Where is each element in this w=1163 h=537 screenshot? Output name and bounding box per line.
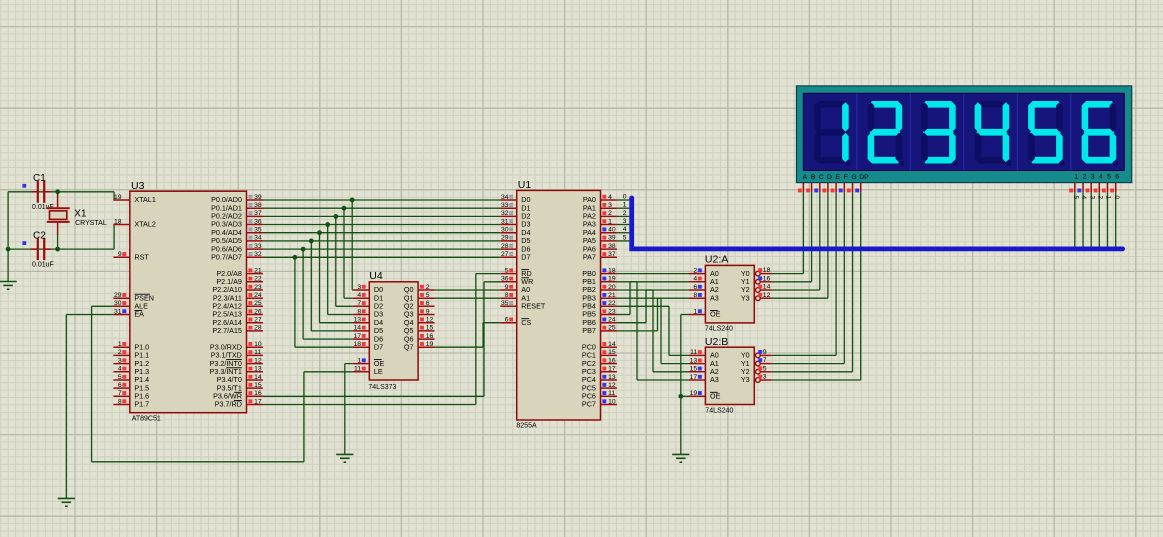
display digit 1 bbox=[814, 101, 851, 166]
U3 right pins (P0, P2, P3 ports) bbox=[210, 194, 263, 409]
node AD0 junction bbox=[350, 198, 355, 203]
wire AD5 net (U3 P0.5 to U4 D5 and U1 D5) bbox=[263, 241, 500, 331]
svg-text:4: 4 bbox=[1099, 174, 1103, 181]
svg-text:12: 12 bbox=[254, 357, 262, 364]
svg-text:U4: U4 bbox=[369, 270, 383, 282]
svg-text:3: 3 bbox=[623, 218, 627, 225]
wire A1 net (U4 Q1 to U1 A1) bbox=[435, 297, 501, 299]
node AD2 junction bbox=[333, 214, 338, 219]
svg-text:7: 7 bbox=[357, 300, 361, 307]
svg-text:25: 25 bbox=[608, 325, 616, 332]
svg-text:8: 8 bbox=[505, 292, 509, 299]
display segment labels ABCDEFG DP bbox=[803, 174, 870, 181]
svg-text:9: 9 bbox=[763, 349, 767, 356]
svg-text:1: 1 bbox=[623, 202, 627, 209]
svg-text:D7: D7 bbox=[521, 253, 530, 262]
display LED1 frame bbox=[797, 86, 1132, 183]
svg-text:10: 10 bbox=[608, 398, 616, 405]
svg-text:5: 5 bbox=[1072, 196, 1079, 200]
svg-text:14: 14 bbox=[254, 374, 262, 381]
IC U2:A 74LS240 body bbox=[705, 254, 754, 333]
svg-text:17: 17 bbox=[254, 398, 262, 405]
svg-text:5: 5 bbox=[505, 267, 509, 274]
svg-text:6: 6 bbox=[505, 317, 509, 324]
svg-text:13: 13 bbox=[254, 366, 262, 373]
svg-text:X1: X1 bbox=[74, 209, 87, 220]
svg-text:G: G bbox=[851, 174, 856, 181]
svg-text:74LS373: 74LS373 bbox=[368, 384, 396, 391]
wire PB1 net (U1 PB1 to 74LS240 input) bbox=[617, 282, 689, 380]
wire PA4 to bus with net label 4 bbox=[617, 226, 630, 233]
svg-text:PA7: PA7 bbox=[583, 253, 596, 262]
svg-text:4: 4 bbox=[1080, 196, 1087, 200]
svg-text:P0.7/AD7: P0.7/AD7 bbox=[211, 253, 242, 262]
svg-text:17: 17 bbox=[354, 333, 362, 340]
svg-text:C1: C1 bbox=[33, 173, 46, 184]
ground (EA) bbox=[58, 498, 75, 506]
svg-text:4: 4 bbox=[608, 194, 612, 201]
svg-text:A3: A3 bbox=[710, 293, 719, 302]
wire segment G net (74LS240 output to display) bbox=[772, 192, 853, 372]
svg-text:U2:A: U2:A bbox=[705, 254, 728, 266]
svg-text:5: 5 bbox=[426, 292, 430, 299]
svg-text:CRYSTAL: CRYSTAL bbox=[75, 220, 107, 227]
svg-text:CS: CS bbox=[521, 318, 531, 327]
svg-text:74LS240: 74LS240 bbox=[705, 408, 733, 415]
svg-text:1: 1 bbox=[357, 357, 361, 364]
wire segment C net (74LS240 output to display) bbox=[772, 192, 820, 290]
wire digit 6 net (display to bus) bbox=[1115, 192, 1117, 247]
svg-text:OE: OE bbox=[710, 392, 721, 401]
svg-text:36: 36 bbox=[254, 218, 262, 225]
wire digit 2 net (display to bus) bbox=[1082, 192, 1084, 247]
node AD5 junction bbox=[309, 239, 314, 244]
svg-text:9: 9 bbox=[118, 251, 122, 258]
node AD3 junction bbox=[325, 222, 330, 227]
svg-text:15: 15 bbox=[690, 366, 698, 373]
svg-text:DP: DP bbox=[859, 174, 869, 181]
wire PB0 net (U1 PB0 to 74LS240 input) bbox=[617, 273, 689, 275]
svg-text:RESET: RESET bbox=[521, 302, 546, 311]
svg-text:37: 37 bbox=[254, 210, 262, 217]
svg-text:2: 2 bbox=[1083, 174, 1087, 181]
svg-text:32: 32 bbox=[501, 210, 509, 217]
node AD6 junction bbox=[301, 247, 306, 252]
svg-text:12: 12 bbox=[426, 317, 434, 324]
svg-text:P1.7: P1.7 bbox=[134, 400, 149, 409]
svg-text:19: 19 bbox=[608, 276, 616, 283]
svg-text:U2:B: U2:B bbox=[705, 336, 728, 348]
wire digit 3 net (display to bus) bbox=[1090, 192, 1092, 247]
svg-text:28: 28 bbox=[254, 325, 262, 332]
svg-text:26: 26 bbox=[254, 308, 262, 315]
svg-text:38: 38 bbox=[254, 202, 262, 209]
wire A0 net (U4 Q0 to U1 A0) bbox=[435, 289, 501, 291]
node AD4 junction bbox=[317, 230, 322, 235]
wire AD7 net (U3 P0.7 to U4 D7 and U1 D7) bbox=[263, 257, 500, 347]
wire PB5 net (U1 PB5 to 74LS240 input) bbox=[617, 282, 689, 315]
wire segment A net (74LS240 output to display) bbox=[772, 192, 804, 274]
wire PB7 net (U1 PB7 to 74LS240 input) bbox=[617, 298, 689, 331]
svg-text:21: 21 bbox=[254, 267, 262, 274]
svg-text:XTAL2: XTAL2 bbox=[134, 220, 155, 229]
U3 left pins (XTAL1, XTAL2, RST, PSEN, ALE, EA, P1.0-P1.7) bbox=[113, 194, 155, 409]
svg-text:35: 35 bbox=[501, 300, 509, 307]
node C2 ground junction bbox=[6, 247, 11, 252]
wire segment B net (74LS240 output to display) bbox=[772, 192, 812, 282]
svg-text:E: E bbox=[835, 174, 840, 181]
svg-text:11: 11 bbox=[690, 349, 697, 356]
svg-text:6: 6 bbox=[426, 300, 430, 307]
svg-text:34: 34 bbox=[501, 194, 509, 201]
svg-text:16: 16 bbox=[254, 390, 262, 397]
svg-text:6: 6 bbox=[693, 284, 697, 291]
U2:A left pins (A0-A3, OE) bbox=[689, 267, 721, 318]
svg-text:15: 15 bbox=[426, 325, 434, 332]
svg-text:19: 19 bbox=[426, 341, 434, 348]
svg-text:33: 33 bbox=[254, 243, 262, 250]
svg-text:0: 0 bbox=[1113, 196, 1120, 200]
svg-text:34: 34 bbox=[254, 235, 262, 242]
svg-text:36: 36 bbox=[501, 276, 509, 283]
wire PA3 to bus with net label 3 bbox=[617, 218, 630, 225]
wire AD6 net (U3 P0.6 to U4 D6 and U1 D6) bbox=[263, 249, 500, 339]
svg-text:Y3: Y3 bbox=[741, 293, 750, 302]
svg-text:16: 16 bbox=[426, 333, 434, 340]
svg-text:U3: U3 bbox=[131, 180, 145, 192]
svg-text:OE: OE bbox=[710, 310, 721, 319]
svg-text:21: 21 bbox=[608, 292, 616, 299]
svg-text:31: 31 bbox=[114, 308, 122, 315]
svg-text:19: 19 bbox=[114, 194, 122, 201]
display digit 4 bbox=[975, 101, 1012, 166]
svg-text:B: B bbox=[811, 174, 816, 181]
svg-text:7: 7 bbox=[118, 390, 122, 397]
wire PA0 to bus with net label 0 bbox=[617, 193, 630, 200]
svg-text:2: 2 bbox=[623, 210, 627, 217]
svg-text:2: 2 bbox=[693, 267, 697, 274]
svg-text:4: 4 bbox=[693, 276, 697, 283]
wire AD4 net (U3 P0.4 to U4 D4 and U1 D4) bbox=[263, 233, 500, 323]
IC U2:B 74LS240 body bbox=[705, 336, 754, 415]
wire PB3 net (U1 PB3 to 74LS240 input) bbox=[617, 298, 689, 363]
svg-text:A: A bbox=[803, 174, 808, 181]
svg-text:30: 30 bbox=[114, 300, 122, 307]
svg-text:17: 17 bbox=[690, 374, 698, 381]
U1 left pins (D0-D7, RD, WR, A0, A1, RESET, CS) bbox=[500, 194, 546, 327]
svg-text:25: 25 bbox=[254, 300, 262, 307]
wire PB6 net (U1 PB6 to 74LS240 input) bbox=[617, 290, 689, 323]
svg-text:15: 15 bbox=[254, 382, 262, 389]
svg-text:37: 37 bbox=[608, 251, 616, 258]
svg-text:3: 3 bbox=[1088, 196, 1095, 200]
IC U1 8255A body bbox=[516, 179, 600, 429]
display digit 6 bbox=[1082, 101, 1119, 166]
svg-text:D7: D7 bbox=[374, 342, 383, 351]
svg-text:PC7: PC7 bbox=[582, 400, 596, 409]
svg-text:XTAL1: XTAL1 bbox=[134, 195, 155, 204]
svg-text:39: 39 bbox=[608, 235, 616, 242]
ground (crystal caps) bbox=[0, 282, 17, 290]
svg-text:A3: A3 bbox=[710, 375, 719, 384]
wire AD3 net (U3 P0.3 to U4 D3 and U1 D3) bbox=[263, 225, 500, 315]
svg-text:RST: RST bbox=[134, 253, 149, 262]
svg-text:74LS240: 74LS240 bbox=[705, 326, 733, 333]
U2:A right pins (Y0-Y3 with inverter bubbles) bbox=[741, 267, 772, 302]
svg-text:14: 14 bbox=[608, 341, 616, 348]
svg-text:3: 3 bbox=[118, 357, 122, 364]
node AD7 junction bbox=[293, 255, 298, 260]
wire segment DP net (74LS240 output to display) bbox=[772, 192, 861, 380]
svg-text:PB7: PB7 bbox=[582, 326, 596, 335]
svg-text:3: 3 bbox=[608, 202, 612, 209]
capacitor C2 bbox=[22, 230, 53, 268]
wire digit 4 net (display to bus) bbox=[1098, 192, 1100, 247]
wire AD1 net (U3 P0.1 to U4 D1 and U1 D1) bbox=[263, 208, 500, 298]
svg-text:0: 0 bbox=[623, 193, 627, 200]
svg-text:18: 18 bbox=[763, 267, 771, 274]
svg-text:2: 2 bbox=[608, 210, 612, 217]
svg-text:8255A: 8255A bbox=[516, 423, 537, 430]
svg-text:13: 13 bbox=[354, 317, 362, 324]
U2:B left pins (A0-A3, OE) bbox=[689, 349, 721, 400]
ground (U4 OE) bbox=[336, 454, 353, 462]
svg-text:24: 24 bbox=[254, 292, 262, 299]
svg-text:AT89C51: AT89C51 bbox=[132, 416, 161, 423]
display digit 5 bbox=[1028, 101, 1065, 166]
display digit labels 123456 bbox=[1074, 174, 1119, 181]
wire PB4 net (U1 PB4 to 74LS240 input) bbox=[617, 306, 689, 355]
svg-text:4: 4 bbox=[118, 366, 122, 373]
wire U4 OE to ground bbox=[345, 364, 353, 455]
svg-text:2: 2 bbox=[1097, 196, 1104, 200]
wire segment D net (74LS240 output to display) bbox=[772, 192, 828, 298]
svg-text:1: 1 bbox=[1105, 196, 1112, 200]
wire OE net (U2:A OE / U2:B OE to ground) bbox=[681, 315, 689, 455]
svg-text:24: 24 bbox=[608, 317, 616, 324]
svg-text:31: 31 bbox=[501, 218, 509, 225]
svg-text:14: 14 bbox=[763, 284, 771, 291]
svg-text:P3.7/RD: P3.7/RD bbox=[215, 400, 242, 409]
wire ALE net (U3 ALE to U4 LE) bbox=[92, 306, 353, 462]
svg-text:8: 8 bbox=[693, 292, 697, 299]
node AD1 junction bbox=[342, 206, 347, 211]
svg-text:15: 15 bbox=[608, 349, 616, 356]
svg-text:1: 1 bbox=[693, 308, 697, 315]
svg-text:5: 5 bbox=[118, 374, 122, 381]
svg-text:U1: U1 bbox=[518, 179, 532, 191]
svg-text:LE: LE bbox=[374, 367, 383, 376]
svg-text:30: 30 bbox=[501, 227, 509, 234]
svg-text:3: 3 bbox=[1091, 174, 1095, 181]
display digit pins (1-6) with rotated net labels 5-0 bbox=[1069, 183, 1120, 200]
svg-text:22: 22 bbox=[608, 300, 616, 307]
wire XTAL2 net (C2/X1 to U3 XTAL2) bbox=[58, 225, 115, 250]
svg-text:0.01uF: 0.01uF bbox=[32, 261, 54, 268]
svg-text:5: 5 bbox=[763, 365, 767, 372]
svg-text:12: 12 bbox=[608, 382, 616, 389]
svg-text:11: 11 bbox=[608, 390, 615, 397]
svg-text:17: 17 bbox=[608, 366, 616, 373]
svg-text:6: 6 bbox=[1115, 174, 1119, 181]
IC U3 AT89C51 body bbox=[130, 180, 247, 423]
node OE junction bbox=[678, 394, 683, 399]
U2:B right pins (Y0-Y3 with inverter bubbles) bbox=[741, 349, 772, 384]
wire XTAL1 net (C1/X1 to U3 XTAL1) bbox=[8, 192, 114, 200]
svg-text:13: 13 bbox=[608, 374, 616, 381]
node XTAL1 junction bbox=[55, 189, 60, 194]
wire EA net (U3 EA to ground) bbox=[66, 315, 113, 499]
wire PA1 to bus with net label 1 bbox=[617, 202, 630, 209]
U4 right pins (Q0-Q7) bbox=[404, 284, 435, 352]
wire ground net left (C1/C2 to ground) bbox=[8, 192, 58, 282]
svg-text:P2.7/A15: P2.7/A15 bbox=[212, 326, 242, 335]
wire PB2 net (U1 PB2 to 74LS240 input) bbox=[617, 290, 689, 372]
wire segment F net (74LS240 output to display) bbox=[772, 192, 845, 364]
svg-text:1: 1 bbox=[608, 218, 612, 225]
ground (U2 OE) bbox=[672, 454, 689, 462]
wire WR net (U3 P3.6 to U1 WR) bbox=[263, 282, 500, 397]
svg-text:5: 5 bbox=[623, 234, 627, 241]
svg-text:16: 16 bbox=[608, 357, 616, 364]
IC U4 74LS373 body bbox=[368, 270, 418, 391]
svg-text:5: 5 bbox=[1107, 174, 1111, 181]
svg-text:F: F bbox=[844, 174, 848, 181]
svg-text:12: 12 bbox=[763, 292, 771, 299]
crystal X1 bbox=[47, 192, 107, 249]
U1 right pins (PA0-PA7, PB0-PB7, PC0-PC7) bbox=[582, 194, 617, 409]
wire digit 1 net (display to bus) bbox=[1074, 192, 1076, 247]
svg-text:C: C bbox=[819, 174, 824, 181]
svg-text:1: 1 bbox=[1074, 174, 1078, 181]
bus (PA0-PA5 to display digit pins) bbox=[632, 198, 1123, 249]
svg-text:18: 18 bbox=[354, 341, 362, 348]
svg-text:14: 14 bbox=[354, 325, 362, 332]
svg-text:19: 19 bbox=[690, 390, 698, 397]
display digit 2 bbox=[868, 101, 905, 166]
wire RD net (U3 P3.7 to U1 RD) bbox=[263, 274, 500, 405]
svg-text:38: 38 bbox=[608, 243, 616, 250]
svg-text:2: 2 bbox=[426, 284, 430, 291]
svg-text:4: 4 bbox=[357, 292, 361, 299]
wire CS net (U4 Q7 to U1 CS) bbox=[435, 323, 501, 348]
svg-text:C2: C2 bbox=[33, 230, 46, 241]
svg-text:9: 9 bbox=[426, 308, 430, 315]
svg-text:39: 39 bbox=[254, 194, 262, 201]
wire segment E net (74LS240 output to display) bbox=[772, 192, 837, 355]
svg-text:13: 13 bbox=[690, 357, 698, 364]
svg-text:EA: EA bbox=[134, 310, 144, 319]
svg-text:9: 9 bbox=[505, 284, 509, 291]
svg-text:8: 8 bbox=[118, 398, 122, 405]
wire AD2 net (U3 P0.2 to U4 D2 and U1 D2) bbox=[263, 216, 500, 306]
wire PA5 to bus with net label 5 bbox=[617, 234, 630, 241]
U4 left pins (D0-D7, OE, LE) bbox=[353, 284, 385, 376]
svg-text:29: 29 bbox=[114, 292, 122, 299]
svg-text:2: 2 bbox=[118, 349, 122, 356]
svg-text:22: 22 bbox=[254, 276, 262, 283]
svg-text:10: 10 bbox=[254, 341, 262, 348]
display digit 3 bbox=[921, 101, 958, 166]
svg-text:4: 4 bbox=[623, 226, 627, 233]
wire AD0 net (U3 P0.0 to U4 D0 and U1 D0) bbox=[263, 200, 500, 290]
svg-text:29: 29 bbox=[501, 235, 509, 242]
svg-text:11: 11 bbox=[254, 349, 261, 356]
svg-text:18: 18 bbox=[114, 218, 122, 225]
display segment pins (A-G, DP) bbox=[798, 183, 861, 193]
svg-text:35: 35 bbox=[254, 227, 262, 234]
svg-text:28: 28 bbox=[501, 243, 509, 250]
svg-text:8: 8 bbox=[357, 308, 361, 315]
svg-text:6: 6 bbox=[118, 382, 122, 389]
wire digit 5 net (display to bus) bbox=[1107, 192, 1109, 247]
svg-text:11: 11 bbox=[354, 366, 361, 373]
svg-text:Q7: Q7 bbox=[404, 342, 414, 351]
svg-text:16: 16 bbox=[763, 275, 771, 282]
svg-text:27: 27 bbox=[501, 251, 509, 258]
svg-text:18: 18 bbox=[608, 267, 616, 274]
svg-text:23: 23 bbox=[608, 308, 616, 315]
svg-text:33: 33 bbox=[501, 202, 509, 209]
svg-text:20: 20 bbox=[608, 284, 616, 291]
svg-text:23: 23 bbox=[254, 284, 262, 291]
svg-text:32: 32 bbox=[254, 251, 262, 258]
wire PA2 to bus with net label 2 bbox=[617, 210, 630, 217]
svg-text:D: D bbox=[827, 174, 832, 181]
svg-text:40: 40 bbox=[608, 227, 616, 234]
svg-text:Y3: Y3 bbox=[741, 375, 750, 384]
svg-text:27: 27 bbox=[254, 317, 262, 324]
svg-text:1: 1 bbox=[118, 341, 122, 348]
svg-text:3: 3 bbox=[763, 374, 767, 381]
svg-text:7: 7 bbox=[763, 357, 767, 364]
svg-text:3: 3 bbox=[357, 284, 361, 291]
capacitor C1 bbox=[22, 173, 53, 211]
node XTAL2 junction bbox=[55, 247, 60, 252]
